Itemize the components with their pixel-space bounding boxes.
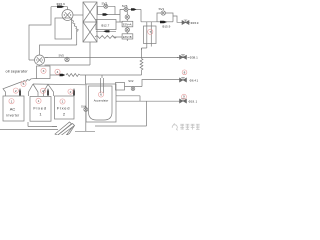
svg-text:4: 4	[57, 70, 59, 74]
svg-text:SV3: SV3	[102, 1, 108, 5]
svg-text:5: 5	[23, 82, 25, 86]
svg-text:8: 8	[184, 70, 186, 74]
svg-text:1: 1	[11, 99, 13, 103]
svg-text:1: 1	[38, 99, 40, 103]
svg-text:Φ6.4: Φ6.4	[190, 78, 197, 82]
svg-text:9: 9	[197, 21, 199, 25]
svg-text:ESV=A: ESV=A	[123, 22, 132, 26]
svg-text:SV1: SV1	[159, 7, 165, 11]
svg-text:Φ15.9: Φ15.9	[57, 2, 66, 6]
svg-text:AC: AC	[10, 107, 16, 112]
svg-text:1: 1	[197, 78, 199, 82]
svg-text:SV4: SV4	[81, 105, 87, 109]
svg-text:1: 1	[62, 100, 64, 104]
svg-text:3: 3	[43, 69, 45, 73]
svg-text:Φ12.7: Φ12.7	[101, 24, 110, 28]
svg-text:inverter: inverter	[6, 114, 20, 118]
svg-text:2: 2	[70, 90, 72, 94]
svg-text:Φ38.1: Φ38.1	[190, 56, 199, 60]
svg-text:6: 6	[100, 93, 102, 97]
svg-text:2: 2	[15, 89, 17, 93]
svg-text:Φ15.9: Φ15.9	[162, 25, 171, 29]
svg-text:SV2: SV2	[128, 79, 134, 83]
svg-text:2: 2	[63, 112, 66, 117]
svg-text:ESV=B: ESV=B	[123, 35, 132, 39]
svg-text:2: 2	[42, 89, 44, 93]
svg-text:1: 1	[196, 99, 198, 103]
svg-text:Φ19.: Φ19.	[189, 99, 196, 103]
svg-text:SV5: SV5	[59, 54, 65, 58]
svg-text:SV6: SV6	[122, 4, 128, 8]
svg-text:1: 1	[39, 112, 42, 117]
svg-text:Accumulator: Accumulator	[94, 99, 109, 103]
svg-text:oil separator: oil separator	[6, 70, 29, 74]
svg-text:9: 9	[183, 95, 185, 99]
svg-text:7: 7	[149, 30, 151, 34]
svg-text:Fixed: Fixed	[57, 105, 70, 110]
svg-text:Fixed: Fixed	[33, 105, 46, 110]
